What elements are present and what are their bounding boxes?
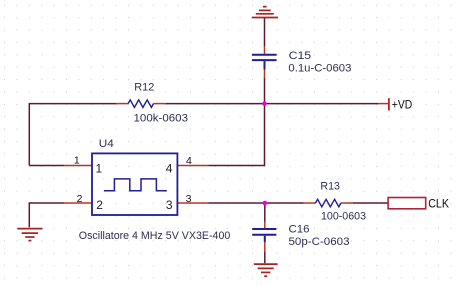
svg-text:4: 4	[166, 162, 173, 176]
svg-text:3: 3	[186, 193, 192, 205]
svg-text:C15: C15	[289, 50, 312, 62]
svg-text:+VD: +VD	[392, 98, 413, 112]
svg-text:100k-0603: 100k-0603	[134, 112, 189, 124]
svg-text:C16: C16	[289, 224, 310, 236]
svg-text:4: 4	[186, 155, 192, 167]
svg-text:1: 1	[96, 162, 103, 176]
svg-text:R13: R13	[320, 180, 340, 192]
svg-text:R12: R12	[134, 82, 154, 94]
svg-text:3: 3	[166, 198, 173, 212]
svg-text:50p-C-0603: 50p-C-0603	[289, 236, 350, 248]
svg-text:1: 1	[74, 155, 80, 167]
svg-text:2: 2	[96, 198, 103, 212]
svg-text:0.1u-C-0603: 0.1u-C-0603	[288, 62, 351, 74]
svg-text:100-0603: 100-0603	[321, 211, 366, 223]
svg-text:2: 2	[77, 193, 83, 205]
svg-text:U4: U4	[99, 138, 114, 150]
svg-text:CLK: CLK	[428, 197, 449, 211]
svg-text:Oscillatore 4 MHz 5V VX3E-400: Oscillatore 4 MHz 5V VX3E-400	[79, 230, 231, 242]
